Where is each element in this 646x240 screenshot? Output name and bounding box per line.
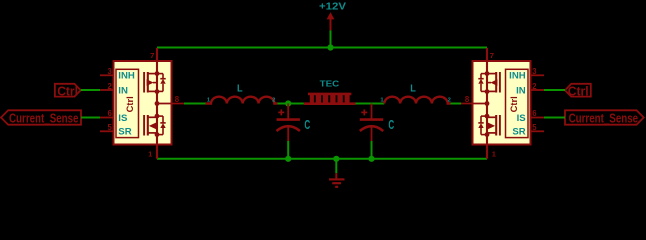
U2 internal half-bridge trunk	[486, 48, 488, 159]
svg-text:6: 6	[532, 109, 537, 118]
U2 low-side MOSFET	[478, 114, 500, 137]
U2 pin 5 (SR)	[512, 123, 544, 138]
svg-text:SR: SR	[512, 127, 525, 138]
svg-text:5: 5	[532, 123, 537, 132]
svg-text:Ctrl: Ctrl	[124, 96, 135, 112]
svg-text:3: 3	[532, 67, 537, 76]
U2 pin 8 (OUT)	[460, 95, 489, 106]
svg-text:2: 2	[272, 98, 275, 104]
svg-text:C: C	[304, 118, 310, 132]
svg-text:INH: INH	[118, 71, 135, 82]
wire U2 pin 2 to Ctrl label	[544, 89, 565, 91]
half-bridge driver U1 body	[114, 61, 172, 145]
svg-text:TEC: TEC	[320, 78, 340, 88]
svg-text:Ctrl: Ctrl	[568, 83, 589, 98]
wire Current_Sense label to U1 pin 6	[81, 117, 100, 119]
power symbol +12V	[319, 2, 347, 31]
U2 high-side MOSFET	[478, 71, 500, 94]
U2 pin 2 (IN)	[516, 82, 544, 97]
svg-text:7: 7	[150, 51, 154, 60]
capacitor C2	[360, 104, 394, 142]
svg-text:L: L	[410, 83, 416, 94]
svg-text:8: 8	[175, 95, 180, 104]
U1 pin 3 (INH)	[100, 67, 135, 82]
wire L2 to U2 pin 8	[451, 103, 462, 105]
wire L1 to node A junction	[277, 103, 304, 105]
wire from +12V power symbol down to top rail	[330, 30, 332, 47]
svg-text:Ctrl: Ctrl	[57, 83, 78, 98]
wire TEC to inductor L2 (crosses C2 lead, no junction)	[356, 103, 385, 105]
U1 internal half-bridge trunk	[156, 48, 158, 159]
svg-text:Ctrl: Ctrl	[508, 96, 519, 112]
svg-text:1: 1	[148, 149, 153, 158]
svg-text:6: 6	[107, 109, 112, 118]
junction ground on bottom rail	[333, 156, 339, 162]
svg-text:IS: IS	[118, 113, 128, 124]
svg-text:IS: IS	[517, 113, 527, 124]
svg-text:Current_Sense: Current_Sense	[9, 111, 79, 126]
svg-text:7: 7	[490, 51, 494, 60]
svg-text:2: 2	[532, 82, 537, 91]
U1 low-side MOSFET	[144, 114, 166, 137]
global label Ctrl (left)	[55, 83, 81, 98]
wire U2 pin 6 to Current_Sense label	[544, 117, 565, 119]
global label Current_Sense (left)	[1, 110, 81, 125]
capacitor C1	[277, 104, 311, 142]
U1 high-side MOSFET	[144, 71, 166, 94]
svg-text:IN: IN	[516, 85, 526, 96]
junction C2 on bottom rail	[368, 156, 374, 162]
U1 pin 5 (SR)	[100, 123, 132, 138]
inductor L2	[380, 83, 451, 103]
wire ground stub	[335, 159, 337, 173]
svg-text:2: 2	[448, 98, 451, 104]
wire C1 to bottom rail	[287, 141, 289, 159]
wire top rail (U1 pin7 to U2 pin7)	[157, 47, 487, 49]
U2 pin 3 (INH)	[509, 67, 544, 82]
svg-text:L: L	[237, 83, 243, 94]
inductor L1	[206, 83, 278, 103]
wire bottom rail (U1 pin1 to U2 pin1)	[157, 158, 487, 160]
svg-text:INH: INH	[509, 71, 526, 82]
svg-text:+12V: +12V	[319, 2, 347, 13]
svg-text:1: 1	[492, 149, 497, 158]
global label Ctrl (right)	[565, 83, 591, 98]
half-bridge driver U2 body	[473, 61, 531, 145]
junction node A (L1 / C1 / TEC)	[285, 100, 291, 106]
U1 pin 8 (OUT)	[155, 95, 184, 106]
junction +12V on top rail	[327, 44, 333, 50]
svg-text:3: 3	[107, 67, 112, 76]
svg-text:Current_Sense: Current_Sense	[569, 111, 639, 126]
wire Ctrl label to U1 pin 2	[81, 89, 100, 91]
wire U1 pin 8 to inductor L1	[184, 103, 206, 105]
U2 pin 6 (IS)	[517, 109, 544, 124]
U1 pin 2 (IN)	[100, 82, 128, 97]
svg-text:C: C	[388, 118, 394, 132]
svg-text:2: 2	[107, 82, 112, 91]
global label Current_Sense (right)	[565, 110, 644, 125]
U1 pin 6 (IS)	[100, 109, 128, 124]
wire C2 to bottom rail	[371, 141, 373, 159]
svg-text:IN: IN	[118, 85, 128, 96]
thermoelectric cooler TEC	[304, 78, 356, 103]
ground symbol	[329, 173, 345, 187]
svg-text:5: 5	[107, 123, 112, 132]
junction C1 on bottom rail	[285, 156, 291, 162]
svg-text:8: 8	[465, 95, 470, 104]
svg-text:SR: SR	[118, 127, 131, 138]
